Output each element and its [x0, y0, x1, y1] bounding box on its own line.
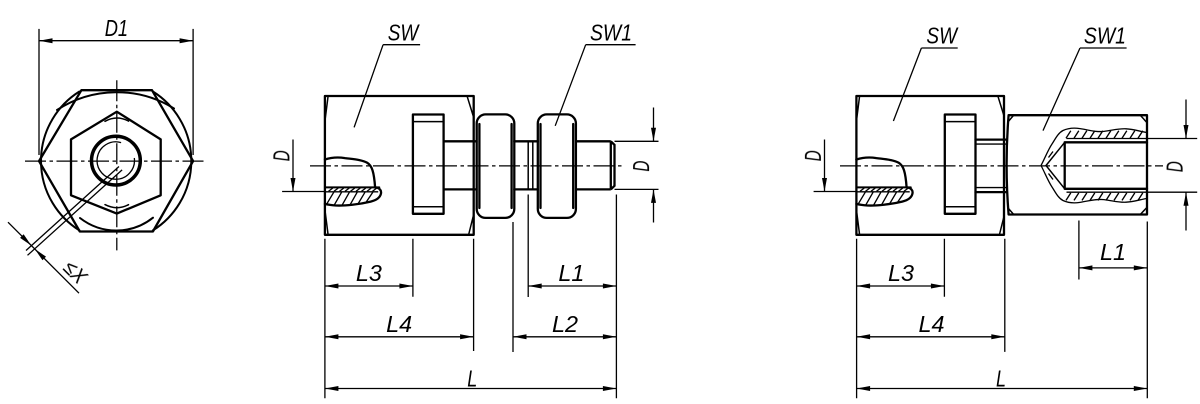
- slot line A: [325, 186, 379, 188]
- hatching top band: [1066, 131, 1143, 139]
- bore circle: [92, 136, 141, 185]
- right view: joint with internally threaded sleeve: [840, 96, 1163, 235]
- inner hexagon (hex of sleeve seen from front): [71, 112, 161, 214]
- threaded stud end: [576, 141, 615, 189]
- broken-out section break line (bottom): [1041, 166, 1147, 203]
- slot mouth lower contour and rounded tip: [325, 187, 381, 205]
- body corner chamfer lines (right view): [857, 97, 1005, 234]
- extension lines (right view, bottom dims): [857, 221, 1148, 399]
- svg-text:L4: L4: [386, 311, 412, 337]
- hex body outline (right view): [856, 96, 1004, 235]
- extension lines (middle, bottom dims): [325, 195, 617, 399]
- section hatching of slot: [858, 192, 904, 205]
- svg-text:SW1: SW1: [1084, 23, 1126, 49]
- hex body outline: [325, 96, 474, 235]
- svg-text:L2: L2: [552, 311, 578, 337]
- dimension L4 (right): [857, 311, 1005, 339]
- hex nut 2 (SW1): [538, 114, 576, 217]
- svg-text:L: L: [467, 366, 477, 392]
- thread crest lines: [1067, 139, 1148, 193]
- slot line B: [857, 191, 910, 193]
- dimension L4 (middle): [325, 311, 474, 339]
- hatching bottom band: [1066, 193, 1143, 201]
- leader SW (right): [893, 23, 958, 121]
- drill point cone: [1046, 142, 1065, 189]
- svg-text:D: D: [628, 161, 654, 172]
- dimension L3 (middle): [325, 260, 413, 289]
- dimension D right (middle): [615, 108, 659, 223]
- slot line A: [857, 186, 911, 188]
- chamfer arc left face: [41, 92, 79, 231]
- broken-out section break line (top): [1041, 128, 1147, 165]
- svg-text:D: D: [1162, 161, 1188, 172]
- dimension D right (right view): [1147, 100, 1197, 231]
- svg-text:D: D: [268, 150, 294, 161]
- slot mouth upper contour: [325, 158, 375, 188]
- dimension L (right): [857, 366, 1148, 392]
- collar disc (right view): [945, 115, 976, 214]
- chamfer arc right face: [153, 92, 191, 231]
- hex nut 1 (SW1): [477, 114, 515, 217]
- hex sleeve outline: [1007, 115, 1147, 214]
- centerline vertical (left view): [116, 80, 118, 250]
- tapped bore: [1065, 142, 1147, 189]
- threaded neck between disc and sleeve: [976, 140, 1007, 193]
- dimension L2 (middle): [513, 311, 616, 339]
- collar disc chamfer lines: [413, 122, 444, 207]
- slot mouth lower contour and rounded tip: [856, 187, 912, 205]
- svg-text:L1: L1: [1100, 239, 1126, 265]
- leader SW1 (middle): [555, 20, 635, 126]
- chamfer arc top face: [57, 92, 174, 110]
- svg-text:SW: SW: [926, 23, 958, 49]
- chamfer arc bottom face: [80, 218, 153, 231]
- svg-text:L: L: [996, 366, 1006, 392]
- left view: front view of hex body SW: [25, 80, 207, 250]
- slot mouth upper contour: [856, 158, 906, 188]
- dimension L (middle): [325, 366, 617, 392]
- dimension D1: [39, 15, 193, 155]
- stud between nuts: [514, 141, 538, 189]
- svg-text:L1: L1: [558, 260, 584, 286]
- svg-text:L4: L4: [919, 311, 945, 337]
- chamfer arc at inner hexagon top vertex: [105, 118, 129, 121]
- stud neck between disc and first nut: [444, 141, 477, 189]
- svg-text:SW: SW: [388, 20, 420, 46]
- svg-text:SW1: SW1: [590, 20, 632, 46]
- fine ticks between A and B: [329, 188, 377, 191]
- collar disc: [413, 115, 444, 214]
- middle view: joint with threaded stud and two nuts: [310, 96, 625, 235]
- hatching at drill point wedge: [1049, 152, 1054, 180]
- svg-text:L3: L3: [356, 260, 382, 286]
- centerline horizontal (left view): [25, 160, 207, 162]
- outer hexagon of body: [39, 90, 193, 231]
- body corner chamfer lines: [325, 97, 473, 234]
- thread arc (3/4 circle): [97, 142, 134, 179]
- centerline (middle view): [310, 165, 625, 167]
- chamfer dimension &#8804;X with leader lines: [8, 167, 122, 294]
- dimension D left (right view): [800, 140, 857, 192]
- chamfer arc at inner hexagon bottom vertex: [105, 205, 129, 208]
- sleeve corner chamfer lines: [1008, 115, 1147, 214]
- thread run-out lines: [528, 141, 533, 189]
- svg-text:D1: D1: [105, 15, 128, 41]
- section hatching of slot: [327, 192, 373, 205]
- dimension L1 (middle): [528, 260, 616, 289]
- dimension L1 (right): [1079, 239, 1147, 270]
- collar disc chamfer lines (right view): [945, 122, 976, 207]
- fine ticks between A and B: [860, 188, 908, 191]
- leader SW (middle): [354, 20, 420, 128]
- svg-text:D: D: [800, 150, 826, 161]
- leader SW1 (right): [1043, 23, 1127, 131]
- slot line B: [325, 191, 378, 193]
- svg-text:L3: L3: [888, 260, 914, 286]
- dimension L3 (right): [857, 260, 945, 289]
- centerline (right view): [840, 165, 1163, 167]
- dimension D left (middle): [268, 140, 325, 192]
